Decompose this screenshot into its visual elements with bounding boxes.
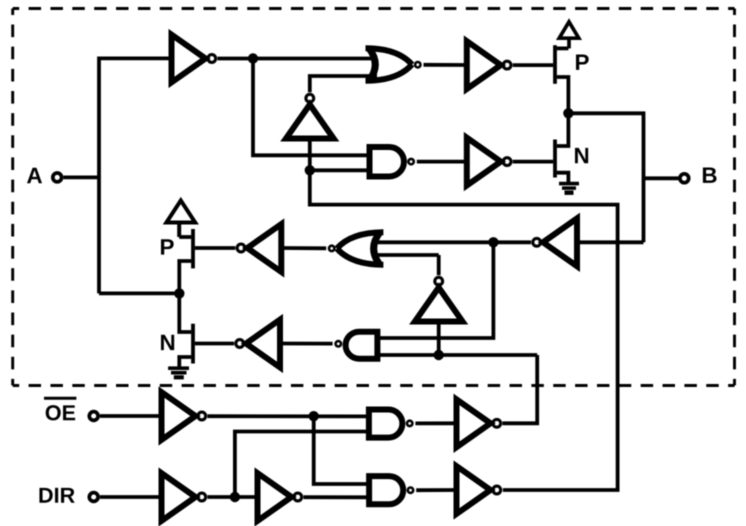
label DIR (39, 488, 74, 503)
dashed enclosure border (13, 7, 735, 10)
wire U10 output up to middle OE line (503, 355, 538, 423)
wire G2 output to inverter U3 (417, 160, 467, 164)
NAND gate G2 (370, 147, 404, 177)
inverter U2 (P1 driver) (467, 41, 501, 89)
wire G6 output to inverter U13 (416, 488, 456, 492)
junction dot at U1 output (248, 53, 258, 63)
NAND gate G4 (faces left) (346, 332, 378, 359)
wire U4 input from DIR line (310, 139, 618, 491)
wire junction down to NAND G4 top input (377, 242, 493, 338)
inverter U7 (N2 driver, faces left) (246, 320, 280, 368)
wire A trunk lower branch (99, 291, 179, 295)
wire G5 output to inverter U10 (415, 421, 456, 425)
up inverter U8 (OE sense, middle) (415, 288, 463, 322)
wire U7 output to N2 gate (195, 342, 234, 346)
wire U1 output to NOR G1 (218, 57, 378, 61)
label B (703, 167, 717, 182)
wire output node to B branch (568, 113, 643, 242)
transistor P2 (faces right) (179, 229, 193, 293)
inverter U12 (DIR buffer 2) (258, 473, 292, 521)
junction dot U8 input (434, 350, 444, 360)
VCC arrow P1 (559, 22, 579, 49)
label P1 (576, 54, 589, 69)
inverter U11 (DIR buffer 1) (162, 473, 196, 521)
inverter U9 (OE buffer) (162, 392, 196, 440)
wire junction down to NAND G2 top input (253, 59, 370, 156)
NOR gate G3 (faces left) (337, 232, 384, 265)
label OE with overline (46, 405, 75, 420)
junction dot on U5 output (488, 237, 498, 247)
transistor P1 (555, 45, 568, 113)
wire U12 output to NAND G6 (304, 495, 371, 499)
NAND gate G5 (369, 410, 402, 438)
node A-side drain junction (174, 288, 184, 298)
node drain junction (563, 108, 573, 118)
ground N2 (168, 368, 189, 377)
label A (27, 168, 42, 183)
VCC arrow P2 (166, 201, 195, 238)
wire U8 input from OE line (437, 322, 441, 356)
wire U9 output to NAND G5 (208, 414, 371, 418)
junction dot OE line (309, 411, 319, 421)
node B terminal (680, 174, 689, 183)
up inverter U4 (DIR sense, top) (286, 105, 334, 139)
node A terminal (53, 173, 62, 182)
wire G3 top input (372, 253, 439, 257)
inverter U3 (N1 driver) (467, 138, 501, 186)
wire B branch into U5 input (577, 240, 644, 244)
wire G1 output to inverter U2 (424, 63, 467, 67)
wire G4 output to inverter U7 (280, 342, 333, 346)
inverter U5 (B feedback, faces left) (543, 218, 577, 266)
wire U11 output to U12 (208, 495, 258, 499)
inverter U6 (P2 driver, faces left) (247, 224, 281, 272)
wire U3 output to N1 gate (513, 160, 553, 164)
wire DIR terminal to inverter U11 (100, 495, 162, 499)
junction dot NAND G2 lower input (305, 165, 315, 175)
wire OE terminal to inverter U9 (100, 414, 162, 418)
wire B stub (644, 176, 680, 180)
wire DIR junction up to NAND G5 lower input (235, 432, 370, 498)
wire U6 output to P2 gate (195, 246, 236, 250)
inverter U1 (A input buffer) (172, 35, 206, 83)
wire junction to NAND G2 lower input (310, 168, 370, 172)
label N1 (575, 148, 588, 163)
NAND gate G6 (369, 476, 403, 504)
wire OE junction down to NAND G6 top input (314, 416, 370, 484)
junction dot DIR line (230, 492, 240, 502)
wire U5 output to NOR G3 (372, 240, 531, 244)
node DIR terminal (89, 493, 98, 502)
label P2 (161, 239, 174, 254)
wire OE line to NAND G4 lower input (377, 353, 537, 357)
inverter U10 (G5 buffer) (457, 399, 491, 447)
inverter U13 (G6 buffer) (457, 466, 491, 514)
transistor N1 (555, 113, 568, 182)
wire G3 output to inverter U6 (281, 246, 326, 250)
node OE terminal (89, 412, 98, 421)
wire A terminal to trunk (64, 175, 100, 179)
label N2 (161, 335, 174, 350)
wire U4 output to NOR G1 lower input (310, 76, 377, 92)
wire A vertical trunk (99, 58, 172, 293)
NOR gate G1 (366, 48, 413, 81)
wire U8 output up to G3 lower input (437, 255, 441, 275)
transistor N2 (faces right) (179, 293, 193, 367)
wire U2 output to P1 gate (513, 63, 553, 67)
ground N1 (559, 184, 579, 193)
